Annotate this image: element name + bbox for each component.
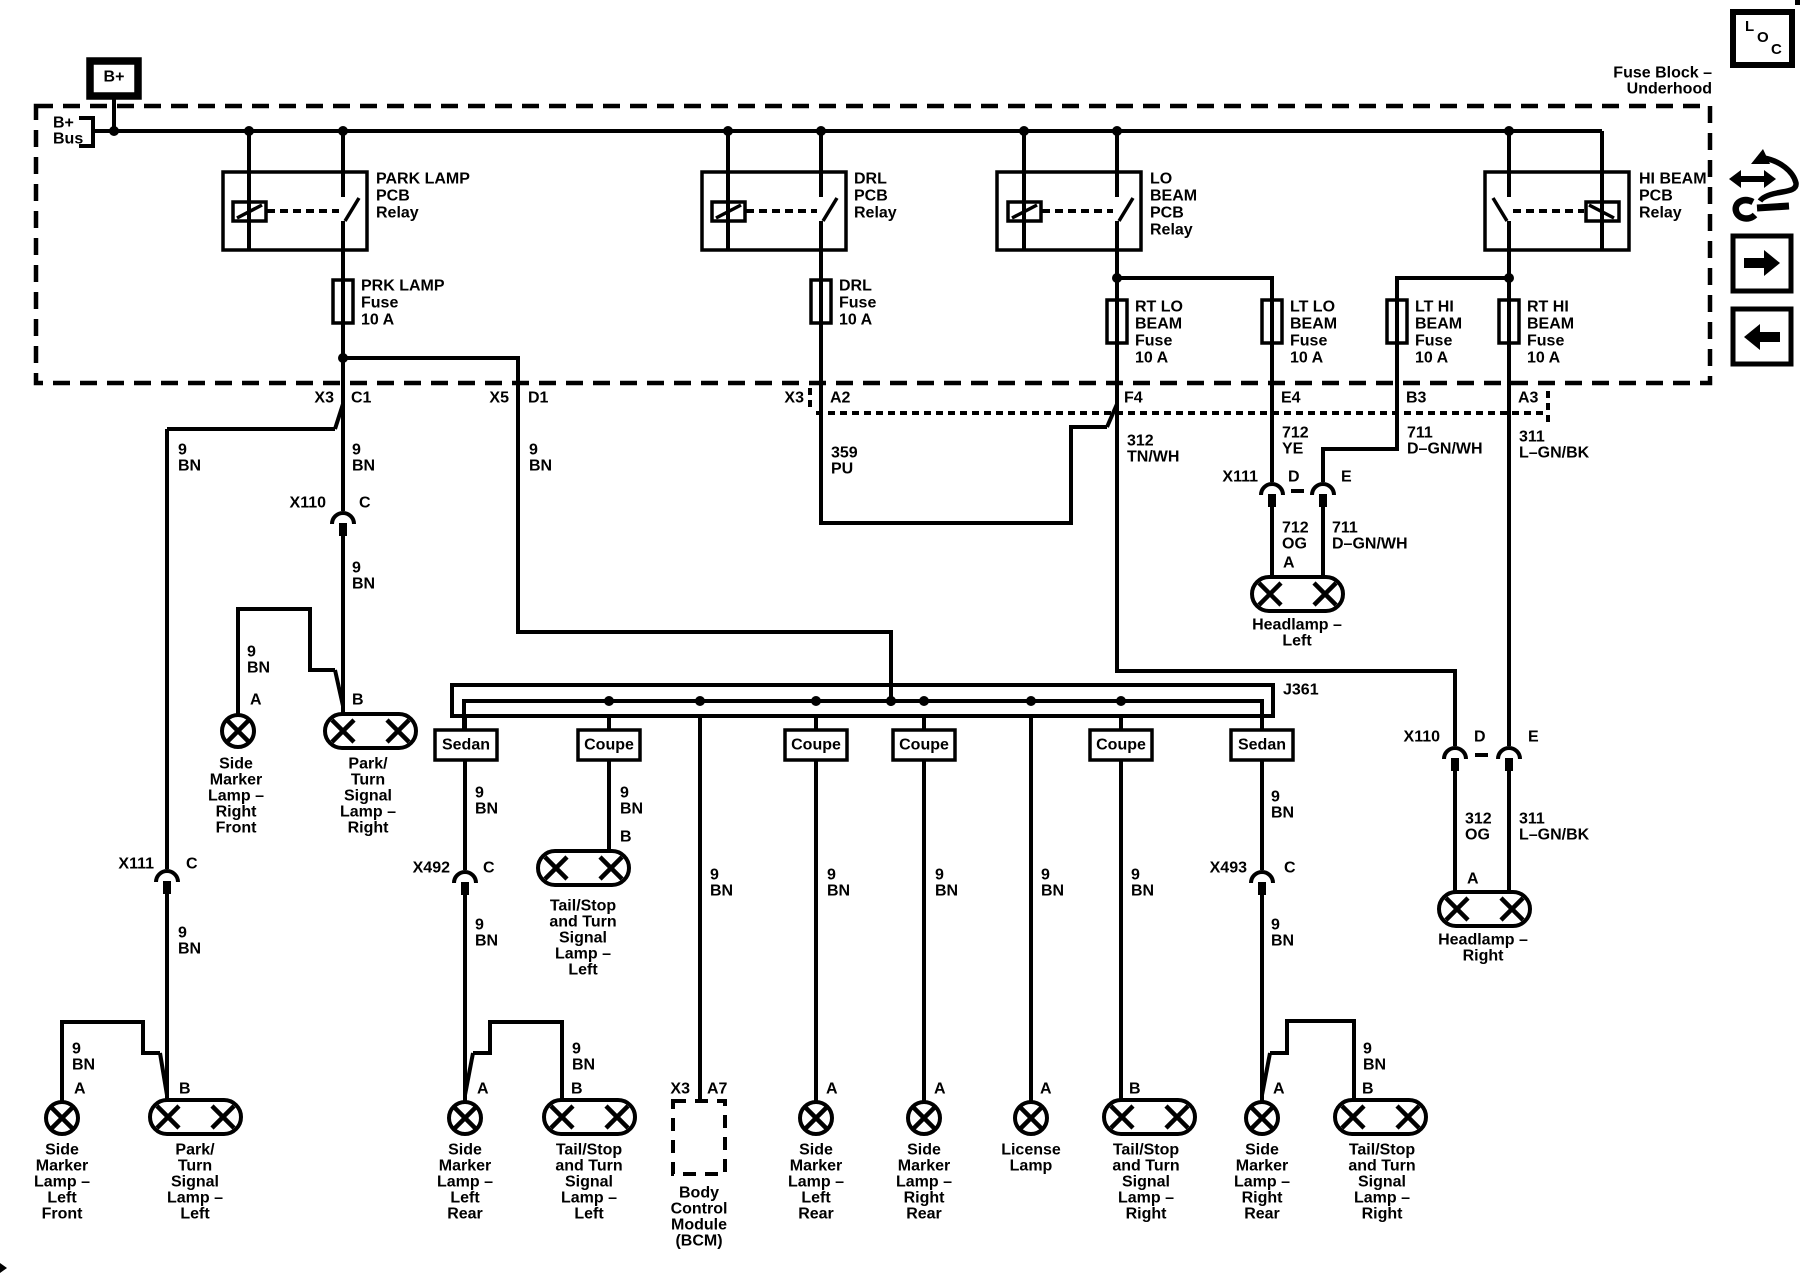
svg-text:BEAM: BEAM <box>1290 316 1337 333</box>
svg-text:E4: E4 <box>1281 390 1301 407</box>
svg-text:9: 9 <box>178 442 187 459</box>
wire: left rear branch jog <box>465 1053 473 1095</box>
wire: drop 1 (Sedan left) <box>463 716 467 730</box>
svg-text:Relay: Relay <box>854 205 897 222</box>
svg-text:9: 9 <box>572 1041 581 1058</box>
wire: 711 from B3 to X111 E <box>1323 325 1397 482</box>
svg-text:Lamp –: Lamp – <box>340 804 396 821</box>
svg-text:X5: X5 <box>489 390 509 407</box>
svg-text:B+: B+ <box>53 115 74 132</box>
connector X3 dotted boundary line <box>816 411 1548 415</box>
svg-text:Turn: Turn <box>178 1158 212 1175</box>
wire: 9 BN below X110 C <box>341 536 345 714</box>
svg-text:9: 9 <box>1041 867 1050 884</box>
lamp: Park/Turn Signal Lamp - Right <box>325 714 416 748</box>
wire: LO split to RT LO fuse <box>1115 278 1119 325</box>
svg-text:Right: Right <box>348 820 390 837</box>
wire: 9 BN X492 to lamps <box>463 895 467 1102</box>
svg-text:9: 9 <box>1271 917 1280 934</box>
svg-text:X111: X111 <box>1222 469 1258 486</box>
svg-text:Fuse: Fuse <box>1135 333 1172 350</box>
wire: left front lamp branch <box>62 1022 160 1102</box>
svg-text:9: 9 <box>935 867 944 884</box>
svg-text:Marker: Marker <box>210 772 262 789</box>
connector X493 C <box>1251 872 1273 883</box>
wire: 712 OG to headlamp left <box>1270 507 1274 577</box>
svg-text:PCB: PCB <box>854 188 888 205</box>
wire: 9 BN below Coupe-7 <box>1119 760 1123 1100</box>
svg-text:Left: Left <box>801 1190 831 1207</box>
relay K4 HI BEAM PCB Relay (mirrored) <box>1485 172 1629 250</box>
svg-text:Signal: Signal <box>565 1174 613 1191</box>
svg-text:Side: Side <box>448 1142 482 1159</box>
fuse block - underhood dashed box <box>36 106 1710 383</box>
relay K1 PARK LAMP PCB Relay <box>223 172 367 250</box>
lamp: Headlamp - Right <box>1439 892 1530 926</box>
svg-text:10 A: 10 A <box>361 312 395 329</box>
wire: 9 BN below Coupe-4 <box>814 760 818 1102</box>
svg-text:D: D <box>1288 469 1300 486</box>
connector X110 D <box>1444 748 1466 759</box>
icon: back arrow box <box>1733 309 1791 364</box>
fuse F2 DRL 10A <box>811 280 831 323</box>
wire: branch jog into lamp B <box>335 670 343 706</box>
svg-text:B: B <box>1129 1081 1141 1098</box>
B+ Bus bracket <box>79 118 93 146</box>
wire: 712 YE from E4 to X111 D <box>1270 325 1274 482</box>
svg-text:BN: BN <box>1271 805 1294 822</box>
svg-text:9: 9 <box>827 867 836 884</box>
svg-text:Marker: Marker <box>1236 1158 1288 1175</box>
svg-text:Lamp –: Lamp – <box>561 1190 617 1207</box>
fuse F3 RT LO BEAM 10A <box>1107 300 1127 343</box>
svg-text:Relay: Relay <box>376 205 419 222</box>
svg-text:X492: X492 <box>413 860 450 877</box>
connector X110 D-E link dash <box>1475 753 1488 757</box>
svg-text:L: L <box>1745 18 1754 35</box>
wire: drop 6 license <box>1029 716 1033 1102</box>
svg-text:Side: Side <box>219 756 253 773</box>
svg-text:Rear: Rear <box>1244 1206 1280 1223</box>
wire: C1 9 BN main down to X110 <box>341 358 345 511</box>
svg-text:A: A <box>250 692 262 709</box>
svg-text:Left: Left <box>450 1190 480 1207</box>
fuse F1 PRK LAMP 10A <box>333 280 353 323</box>
wire: HI split to RT HI fuse <box>1507 278 1511 325</box>
svg-text:HI BEAM: HI BEAM <box>1639 171 1707 188</box>
svg-text:Right: Right <box>1362 1206 1404 1223</box>
svg-text:Park/: Park/ <box>175 1142 215 1159</box>
svg-text:9: 9 <box>352 560 361 577</box>
wire: drop 2 <box>607 716 611 730</box>
lamp: Tail/Stop and Turn Signal Lamp - Left (coupe) <box>538 851 629 885</box>
wire: 9 BN below Coupe-5 <box>922 760 926 1102</box>
page corner mark <box>1795 0 1800 5</box>
svg-text:10 A: 10 A <box>1135 350 1169 367</box>
svg-text:Signal: Signal <box>1358 1174 1406 1191</box>
svg-text:BEAM: BEAM <box>1135 316 1182 333</box>
svg-text:10 A: 10 A <box>1290 350 1324 367</box>
wire: front branch splice jog <box>335 404 343 429</box>
svg-text:B: B <box>179 1081 191 1098</box>
svg-text:Left: Left <box>47 1190 77 1207</box>
svg-text:OG: OG <box>1282 536 1307 553</box>
svg-text:Tail/Stop: Tail/Stop <box>1113 1142 1180 1159</box>
wire: 312 OG to headlamp right <box>1453 771 1457 892</box>
svg-text:PCB: PCB <box>376 188 410 205</box>
svg-text:PCB: PCB <box>1639 188 1673 205</box>
svg-text:X110: X110 <box>1404 729 1441 746</box>
variant box Coupe at x=893 <box>893 730 955 760</box>
svg-text:B: B <box>1362 1081 1374 1098</box>
svg-text:9: 9 <box>1271 789 1280 806</box>
svg-text:X110: X110 <box>290 495 327 512</box>
svg-text:TN/WH: TN/WH <box>1127 449 1179 466</box>
svg-text:9: 9 <box>247 644 256 661</box>
wire: drop 4 <box>814 716 818 730</box>
svg-text:Lamp: Lamp <box>1010 1158 1053 1175</box>
svg-text:Module: Module <box>671 1217 727 1234</box>
svg-text:10 A: 10 A <box>1415 350 1449 367</box>
svg-text:BN: BN <box>572 1057 595 1074</box>
lamp: Headlamp - Left <box>1252 577 1343 611</box>
wire: LO split to LT LO fuse <box>1117 278 1272 325</box>
wire: right rear branch jog <box>1262 1053 1270 1095</box>
svg-text:Fuse: Fuse <box>1290 333 1327 350</box>
svg-text:A: A <box>1273 1081 1285 1098</box>
svg-text:Underhood: Underhood <box>1627 81 1712 98</box>
svg-text:Coupe: Coupe <box>899 737 949 754</box>
svg-text:Park/: Park/ <box>348 756 388 773</box>
svg-text:and Turn: and Turn <box>549 914 616 931</box>
connector X111 D-E link dash <box>1291 489 1304 493</box>
variant box Coupe at x=785 <box>785 730 847 760</box>
svg-text:Signal: Signal <box>344 788 392 805</box>
svg-text:BN: BN <box>247 660 270 677</box>
svg-text:Fuse: Fuse <box>1527 333 1564 350</box>
svg-text:A3: A3 <box>1518 390 1539 407</box>
lamp: Side Marker Lamp - Left Rear (coupe) <box>800 1102 832 1134</box>
svg-text:F4: F4 <box>1124 390 1143 407</box>
svg-text:C: C <box>1771 41 1782 58</box>
svg-text:Right: Right <box>1463 948 1505 965</box>
connector X111 E <box>1312 484 1334 495</box>
svg-text:BEAM: BEAM <box>1150 188 1197 205</box>
bus J361 outer box <box>452 685 1273 716</box>
junction dots on J361 <box>604 696 614 706</box>
svg-text:9: 9 <box>475 785 484 802</box>
svg-text:BN: BN <box>1131 883 1154 900</box>
svg-text:9: 9 <box>1363 1041 1372 1058</box>
svg-text:Rear: Rear <box>906 1206 942 1223</box>
svg-text:L–GN/BK: L–GN/BK <box>1519 445 1590 462</box>
bus J361 inner conductor <box>464 701 1262 730</box>
svg-text:9: 9 <box>178 925 187 942</box>
svg-text:DRL: DRL <box>854 171 887 188</box>
svg-text:Coupe: Coupe <box>791 737 841 754</box>
wire: HI relay output <box>1507 250 1511 278</box>
connector X110 C <box>332 513 354 524</box>
svg-text:Lamp –: Lamp – <box>167 1190 223 1207</box>
wire: 9 BN below Sedan-8 <box>1260 760 1264 870</box>
svg-text:B3: B3 <box>1406 390 1427 407</box>
wire: 359 PU splice jog into F4 wire <box>1107 404 1117 427</box>
connector X3 left tick <box>808 388 812 408</box>
node: splice below PRK LAMP fuse <box>338 353 348 363</box>
variant box Sedan at x=435 <box>435 730 497 760</box>
svg-text:LT HI: LT HI <box>1415 299 1454 316</box>
svg-text:DRL: DRL <box>839 278 872 295</box>
connector X3 right tick <box>1546 391 1550 424</box>
svg-text:Marker: Marker <box>439 1158 491 1175</box>
svg-text:J361: J361 <box>1283 682 1319 699</box>
svg-text:9: 9 <box>475 917 484 934</box>
svg-text:D–GN/WH: D–GN/WH <box>1407 441 1483 458</box>
svg-text:D: D <box>1474 729 1486 746</box>
svg-text:B: B <box>352 692 364 709</box>
icon: LOC box <box>1733 12 1792 65</box>
svg-text:711: 711 <box>1332 520 1358 537</box>
svg-text:711: 711 <box>1407 425 1433 442</box>
svg-text:Fuse: Fuse <box>1415 333 1452 350</box>
svg-text:Rear: Rear <box>447 1206 483 1223</box>
svg-text:Lamp –: Lamp – <box>896 1174 952 1191</box>
svg-text:Sedan: Sedan <box>442 737 490 754</box>
svg-text:E: E <box>1341 469 1352 486</box>
svg-text:312: 312 <box>1465 811 1492 828</box>
wire: left rear tail branch <box>473 1022 562 1100</box>
wire: 9 BN below Coupe-2 <box>607 760 611 851</box>
svg-text:Left: Left <box>180 1206 210 1223</box>
svg-text:712: 712 <box>1282 520 1309 537</box>
svg-text:Lamp –: Lamp – <box>1118 1190 1174 1207</box>
svg-text:and Turn: and Turn <box>555 1158 622 1175</box>
svg-text:BN: BN <box>352 576 375 593</box>
wire: HI split to LT HI fuse <box>1397 278 1509 325</box>
svg-text:Lamp –: Lamp – <box>555 946 611 963</box>
variant box Coupe at x=578 <box>578 730 640 760</box>
svg-text:Lamp –: Lamp – <box>1354 1190 1410 1207</box>
svg-text:BN: BN <box>935 883 958 900</box>
connector X111 D <box>1261 484 1283 495</box>
variant box Coupe at x=1090 <box>1090 730 1152 760</box>
lamp: Side Marker Lamp - Left Front <box>46 1102 78 1134</box>
wire: 9 BN X493 to lamps <box>1260 895 1264 1102</box>
svg-text:C: C <box>1284 860 1296 877</box>
connector X110 E <box>1498 748 1520 759</box>
svg-text:Signal: Signal <box>1122 1174 1170 1191</box>
wire: left branch jog <box>160 1053 167 1095</box>
svg-text:BN: BN <box>178 941 201 958</box>
svg-text:(BCM): (BCM) <box>675 1233 722 1250</box>
svg-text:A: A <box>1040 1081 1052 1098</box>
left edge mark <box>0 1263 7 1273</box>
svg-text:A: A <box>477 1081 489 1098</box>
svg-text:Right: Right <box>1242 1190 1284 1207</box>
wire: LO relay output <box>1115 250 1119 278</box>
svg-text:Body: Body <box>679 1185 719 1202</box>
svg-text:BEAM: BEAM <box>1415 316 1462 333</box>
svg-text:RT LO: RT LO <box>1135 299 1183 316</box>
svg-text:License: License <box>1001 1142 1061 1159</box>
wire: DRL fuse to X3 A2 and 359 PU run <box>821 282 1107 523</box>
wire: B+ bus <box>93 129 1602 133</box>
lamp: Park/Turn Signal Lamp - Left <box>150 1100 241 1134</box>
svg-text:Control: Control <box>671 1201 728 1218</box>
wire: drop 8 (Sedan right) <box>1260 716 1264 730</box>
wire: DRL relay output through fuse <box>819 250 823 282</box>
lamp: Side Marker Lamp - Left Rear (sedan) <box>449 1102 481 1134</box>
svg-text:B: B <box>620 829 632 846</box>
svg-text:Headlamp –: Headlamp – <box>1252 617 1342 634</box>
lamp: Tail/Stop and Turn Signal Lamp - Left (sedan) <box>544 1100 635 1134</box>
module: Body Control Module (BCM) dashed box <box>673 1101 725 1174</box>
B+ terminal <box>90 61 138 96</box>
wire: 311 to headlamp right <box>1507 771 1511 892</box>
svg-text:X493: X493 <box>1210 860 1247 877</box>
svg-text:Tail/Stop: Tail/Stop <box>556 1142 623 1159</box>
fuse F5 LT HI BEAM 10A <box>1387 300 1407 343</box>
svg-text:D1: D1 <box>528 390 549 407</box>
svg-text:BN: BN <box>475 801 498 818</box>
svg-text:9: 9 <box>620 785 629 802</box>
wire: drop 7 <box>1119 716 1123 730</box>
svg-text:Tail/Stop: Tail/Stop <box>1349 1142 1416 1159</box>
svg-text:Turn: Turn <box>351 772 385 789</box>
svg-text:9: 9 <box>529 442 538 459</box>
wire: 9 BN left front run upper <box>165 429 169 869</box>
svg-text:A2: A2 <box>830 390 851 407</box>
svg-text:Sedan: Sedan <box>1238 737 1286 754</box>
svg-text:Lamp –: Lamp – <box>34 1174 90 1191</box>
wire: branch to X5 D1 <box>343 358 891 703</box>
svg-text:Marker: Marker <box>790 1158 842 1175</box>
svg-text:BN: BN <box>1041 883 1064 900</box>
node: LO beam split <box>1112 273 1122 283</box>
icon: forward arrow box <box>1733 236 1791 291</box>
svg-text:Fuse: Fuse <box>839 295 876 312</box>
lamp: Side Marker Lamp - Right Rear (sedan) <box>1246 1102 1278 1134</box>
svg-text:Tail/Stop: Tail/Stop <box>550 898 617 915</box>
svg-text:RT HI: RT HI <box>1527 299 1569 316</box>
svg-text:312: 312 <box>1127 433 1154 450</box>
svg-text:Lamp –: Lamp – <box>788 1174 844 1191</box>
svg-text:C1: C1 <box>351 390 372 407</box>
svg-text:BN: BN <box>827 883 850 900</box>
svg-text:Side: Side <box>1245 1142 1279 1159</box>
svg-text:E: E <box>1528 729 1539 746</box>
svg-text:10 A: 10 A <box>839 312 873 329</box>
svg-text:Lamp –: Lamp – <box>437 1174 493 1191</box>
svg-text:Right: Right <box>904 1190 946 1207</box>
svg-text:Side: Side <box>907 1142 941 1159</box>
svg-text:Left: Left <box>1282 633 1312 650</box>
wire: 312 TN/WH from F4 to X110 D <box>1117 325 1455 746</box>
wire: front branch horizontal <box>167 427 335 431</box>
svg-text:Relay: Relay <box>1150 222 1193 239</box>
svg-text:Fuse Block –: Fuse Block – <box>1613 65 1712 82</box>
svg-text:Left: Left <box>574 1206 604 1223</box>
svg-text:Fuse: Fuse <box>361 295 398 312</box>
wire: B+ feed drop <box>112 97 116 131</box>
svg-text:BN: BN <box>710 883 733 900</box>
lamp: Side Marker Lamp - Right Rear (coupe) <box>908 1102 940 1134</box>
svg-text:BN: BN <box>72 1057 95 1074</box>
svg-text:Lamp –: Lamp – <box>1234 1174 1290 1191</box>
svg-text:X3: X3 <box>784 390 804 407</box>
svg-text:Lamp –: Lamp – <box>208 788 264 805</box>
svg-text:Marker: Marker <box>36 1158 88 1175</box>
wire: right rear tail branch <box>1270 1021 1354 1100</box>
svg-text:Front: Front <box>216 820 258 837</box>
svg-text:9: 9 <box>710 867 719 884</box>
variant box Sedan at x=1231 <box>1231 730 1293 760</box>
relay K2 DRL PCB Relay <box>702 172 846 250</box>
svg-text:A: A <box>1467 871 1479 888</box>
wire: drop 3 to BCM <box>698 716 702 1101</box>
wire: 9 BN left front run lower <box>165 894 169 1102</box>
svg-text:Front: Front <box>42 1206 84 1223</box>
svg-text:Marker: Marker <box>898 1158 950 1175</box>
svg-text:and Turn: and Turn <box>1112 1158 1179 1175</box>
svg-text:LO: LO <box>1150 171 1172 188</box>
junction dots on B+ bus <box>109 126 119 136</box>
relay K3 LO BEAM PCB Relay <box>997 172 1141 250</box>
wire: 9 BN below Sedan-1 <box>463 760 467 870</box>
svg-text:Signal: Signal <box>559 930 607 947</box>
svg-text:C: C <box>186 856 198 873</box>
svg-text:BN: BN <box>1271 933 1294 950</box>
svg-text:A: A <box>1283 555 1295 572</box>
svg-text:PU: PU <box>831 461 853 478</box>
lamp: License Lamp <box>1015 1102 1047 1134</box>
svg-text:D–GN/WH: D–GN/WH <box>1332 536 1408 553</box>
svg-text:LT LO: LT LO <box>1290 299 1335 316</box>
svg-text:BN: BN <box>178 458 201 475</box>
svg-text:9: 9 <box>1131 867 1140 884</box>
svg-text:L–GN/BK: L–GN/BK <box>1519 827 1590 844</box>
svg-text:Side: Side <box>45 1142 79 1159</box>
svg-text:YE: YE <box>1282 441 1304 458</box>
fuse F6 RT HI BEAM 10A <box>1499 300 1519 343</box>
svg-text:BN: BN <box>620 801 643 818</box>
svg-text:Coupe: Coupe <box>1096 737 1146 754</box>
connector X492 C <box>454 872 476 883</box>
svg-text:Headlamp –: Headlamp – <box>1438 932 1528 949</box>
svg-text:Signal: Signal <box>171 1174 219 1191</box>
icon: twist/adjust symbol <box>1729 149 1796 218</box>
svg-text:Coupe: Coupe <box>584 737 634 754</box>
svg-text:and Turn: and Turn <box>1348 1158 1415 1175</box>
svg-text:A: A <box>934 1081 946 1098</box>
fuse F4 LT LO BEAM 10A <box>1262 300 1282 343</box>
wire: park relay output through fuse <box>341 250 345 360</box>
svg-text:X3: X3 <box>314 390 334 407</box>
svg-text:Left: Left <box>568 962 598 979</box>
svg-text:10 A: 10 A <box>1527 350 1561 367</box>
wire: right front side marker branch <box>238 609 335 715</box>
svg-text:OG: OG <box>1465 827 1490 844</box>
svg-text:A: A <box>74 1081 86 1098</box>
svg-text:X3: X3 <box>670 1081 690 1098</box>
svg-text:Right: Right <box>1126 1206 1168 1223</box>
svg-text:359: 359 <box>831 445 858 462</box>
wire: 711 D-GN/WH to headlamp left <box>1321 507 1325 577</box>
svg-text:Rear: Rear <box>798 1206 834 1223</box>
svg-text:9: 9 <box>352 442 361 459</box>
svg-text:B+: B+ <box>104 69 125 86</box>
svg-text:Right: Right <box>216 804 258 821</box>
